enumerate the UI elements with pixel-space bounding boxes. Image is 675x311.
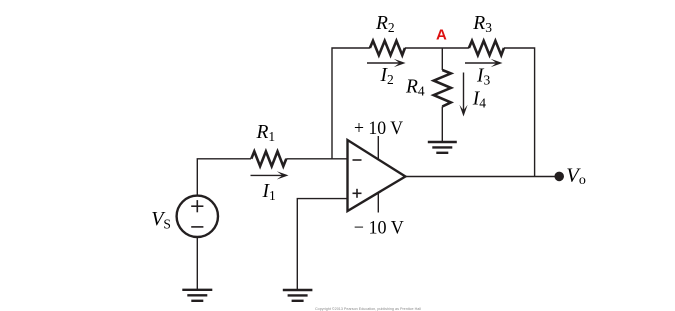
svg-text:Copyright ©2013 Pearson Educat: Copyright ©2013 Pearson Education, publi… [315, 306, 421, 311]
current arrow I3 [465, 59, 503, 67]
resistor R1 [251, 151, 286, 166]
wire output [405, 176, 559, 178]
wire between R2 and node A [405, 47, 469, 49]
svg-text:A: A [436, 27, 447, 44]
resistor R2 [370, 41, 405, 55]
wire VS to R1 [197, 159, 251, 195]
ground below op-amp + input [283, 290, 313, 301]
wire op-amp noninverting input [297, 199, 347, 289]
svg-text:VS: VS [151, 208, 171, 232]
op-amp U1 [348, 140, 406, 211]
svg-text:R3: R3 [472, 13, 492, 35]
current arrow I2 [367, 59, 406, 67]
wire +10V power stub [377, 136, 379, 161]
svg-text:+ 10 V: + 10 V [354, 118, 403, 139]
svg-text:− 10 V: − 10 V [354, 217, 404, 238]
ground below R4 [428, 142, 457, 153]
svg-text:Vo: Vo [566, 164, 586, 188]
voltage source VS [177, 196, 218, 237]
wire -10V power stub [377, 192, 379, 213]
wire VS bottom to ground [196, 238, 198, 289]
node Vo output terminal [554, 172, 564, 182]
svg-text:R1: R1 [256, 122, 276, 144]
resistor R4 [434, 70, 451, 107]
wire right of R3 down to output [504, 48, 535, 177]
ground below VS [182, 290, 212, 301]
svg-text:R2: R2 [375, 13, 395, 35]
current arrow I4 [459, 73, 467, 117]
resistor R3 [469, 41, 504, 55]
svg-text:I1: I1 [262, 181, 276, 203]
svg-text:I2: I2 [380, 65, 394, 87]
current arrow I1 [251, 171, 289, 179]
svg-text:I4: I4 [472, 88, 487, 110]
wire R4 to ground [441, 107, 443, 142]
svg-text:I3: I3 [476, 65, 491, 87]
wire node A down to R4 [441, 48, 443, 70]
wire R1 to op-amp inverting input [286, 158, 347, 160]
svg-text:R4: R4 [405, 77, 425, 99]
wire top feedback left segment [332, 48, 370, 159]
